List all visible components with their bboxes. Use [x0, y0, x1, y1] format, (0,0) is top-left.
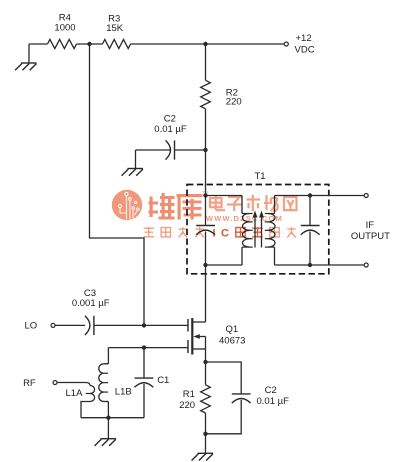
ground G4 [192, 434, 213, 461]
wire R4 to R3 [77, 43, 103, 45]
wire G2 to C2 [136, 149, 171, 151]
wire secondary top rail [275, 195, 365, 197]
wire primary top rail [206, 196, 243, 214]
label R1 [179, 389, 195, 411]
ground G1 [15, 44, 36, 70]
svg-text:0.01 µF: 0.01 µF [154, 124, 187, 135]
label C3 [72, 288, 110, 309]
watermark TM [202, 190, 209, 195]
wire secondary bottom lead [268, 247, 275, 265]
node T1 primary top [203, 193, 207, 197]
svg-text:L1A: L1A [66, 388, 84, 399]
svg-text:IF: IF [366, 220, 375, 231]
label R2 [226, 88, 242, 108]
watermark logo [112, 190, 142, 220]
svg-text:T1: T1 [254, 171, 265, 182]
label C2 upper [154, 114, 187, 135]
wire secondary cap bottom lead [309, 232, 311, 266]
capacitor C3 [85, 316, 94, 335]
node C1 top junction [142, 345, 146, 349]
svg-text:0.001 µF: 0.001 µF [72, 298, 110, 309]
resistor R1 [201, 385, 211, 413]
terminal IF out top [364, 194, 368, 198]
wire C1 top lead [143, 348, 145, 379]
wire bias feed [90, 44, 145, 325]
terminal IF out bottom [364, 263, 368, 267]
node C2 junction [203, 148, 207, 152]
svg-text:IC: IC [213, 228, 235, 240]
svg-text:+12: +12 [296, 33, 312, 44]
label R4 [54, 13, 75, 34]
label C2 bottom [257, 385, 290, 407]
wire C3 to gate2 [94, 324, 188, 326]
node bottom rail junction [203, 432, 207, 436]
watermark url [206, 214, 283, 223]
inductor T1 secondary [265, 214, 275, 248]
wire R2 top lead [205, 44, 207, 80]
wire C1 bottom lead [143, 384, 145, 418]
T1 tuning slugs [253, 211, 264, 248]
wire main line into T1 [205, 150, 207, 226]
wire tank bottom rail [81, 417, 144, 419]
watermark char wei [149, 193, 175, 220]
svg-text:R1: R1 [183, 389, 195, 400]
resistor R3 [103, 39, 131, 48]
label T1 [254, 171, 265, 182]
wire secondary bottom rail [275, 264, 365, 266]
wire tank rail to gate1 [108, 347, 188, 349]
label LO [24, 321, 37, 332]
svg-text:RF: RF [23, 378, 36, 389]
wire secondary cap top lead [309, 196, 311, 226]
wire RF to L1A [57, 382, 86, 384]
label C1 [157, 375, 169, 386]
watermark dianzishichangwang [210, 195, 297, 211]
wire C2 to main line [175, 149, 206, 151]
capacitor T1 primary trim [196, 226, 215, 235]
wire secondary top lead [268, 196, 275, 214]
svg-text:15K: 15K [106, 23, 124, 34]
svg-text:VDC: VDC [295, 45, 315, 56]
svg-text:220: 220 [179, 400, 195, 411]
label IF OUTPUT [351, 220, 390, 242]
capacitor C2 upper [166, 140, 175, 159]
svg-text:220: 220 [226, 97, 242, 108]
wire top rail [29, 43, 48, 45]
node secondary cap bottom [308, 263, 312, 267]
wire L1B bottom lead [104, 402, 109, 418]
wire primary top tick [242, 213, 250, 215]
wire source to C2 [206, 362, 242, 394]
svg-text:0.01 µF: 0.01 µF [257, 396, 290, 407]
label RF [23, 378, 36, 389]
inductor T1 primary [243, 214, 253, 248]
label Q1 [219, 324, 245, 346]
wire trim to bottom node [205, 232, 207, 266]
svg-text:L1B: L1B [115, 386, 132, 397]
capacitor T1 secondary [301, 226, 320, 235]
ground G3 [95, 418, 116, 446]
inductor L1A [86, 383, 95, 402]
wire R3 to +12 [131, 43, 285, 45]
inductor L1B [99, 364, 108, 402]
capacitor C1 [135, 378, 154, 387]
ground G2 [122, 150, 143, 176]
wire L1A bottom [81, 402, 90, 418]
wire source to R1 [205, 362, 207, 385]
svg-text:Q1: Q1 [226, 324, 239, 335]
terminal +12 VDC [284, 42, 288, 46]
node T1 primary bottom [203, 263, 207, 267]
resistor R4 [48, 39, 77, 48]
wire L1B top lead [104, 348, 109, 364]
svg-text:LO: LO [24, 321, 37, 332]
wire T1 to drain [205, 265, 207, 322]
node gate2 junction [142, 323, 146, 327]
wire primary bottom lead [206, 247, 250, 265]
node tank ground junction [106, 416, 110, 420]
node R2 top [203, 42, 207, 46]
svg-text:C1: C1 [157, 375, 169, 386]
svg-text:40673: 40673 [219, 335, 245, 346]
label L1A [66, 388, 84, 399]
wire R2 bottom lead [205, 109, 207, 150]
node bias junction [87, 42, 91, 46]
watermark slogan row [144, 227, 296, 240]
label L1B [115, 386, 132, 397]
watermark char ku [177, 194, 203, 220]
wire R1 bottom lead [205, 413, 207, 434]
terminal LO [51, 323, 55, 327]
capacitor C2 bottom [232, 394, 251, 403]
node secondary cap top [308, 193, 312, 197]
terminal RF [53, 381, 57, 385]
svg-text:1000: 1000 [54, 22, 75, 33]
svg-text:OUTPUT: OUTPUT [351, 231, 390, 242]
wire LO to C3 [55, 324, 85, 326]
node source junction [203, 360, 207, 364]
label R3 [106, 13, 124, 34]
wire C2 bottom lead [206, 400, 242, 434]
label +12 VDC [295, 33, 315, 55]
transistor Q1 [188, 318, 206, 362]
resistor R2 [201, 80, 211, 109]
T1 dashed box [187, 185, 329, 274]
svg-text:C2: C2 [265, 385, 277, 396]
